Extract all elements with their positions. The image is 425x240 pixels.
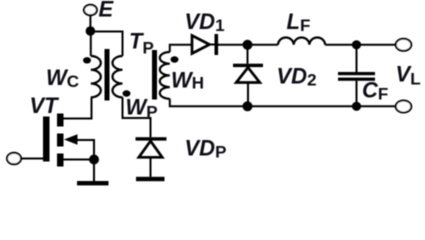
- inductor LF: [278, 37, 325, 44]
- node VD2 top junction: [243, 40, 253, 50]
- terminal output bottom: [396, 101, 412, 113]
- svg-text:VT: VT: [30, 93, 60, 118]
- transistor VT body arrow: [64, 134, 78, 144]
- winding Wc: [91, 56, 101, 97]
- wire VD1 apex: [210, 44, 215, 46]
- wire CF bottom: [356, 81, 358, 107]
- wire source to ground: [93, 160, 95, 182]
- node source junction: [89, 155, 99, 165]
- wire Wh bottom rail: [170, 99, 396, 107]
- node CF bottom junction: [352, 102, 361, 111]
- wire gate lead: [21, 158, 43, 160]
- transistor VT body stub: [57, 134, 64, 147]
- node Wp polarity dot: [123, 90, 131, 96]
- ground under VDp: [136, 177, 165, 181]
- diode VD2 triangle: [236, 68, 260, 83]
- wire CF top: [356, 45, 358, 72]
- wire VDp to ground: [150, 157, 152, 177]
- transistor VT gate bar: [43, 117, 50, 162]
- diode VD2 cathode bar: [233, 64, 263, 67]
- node Wc polarity dot: [83, 57, 91, 63]
- diode VDp triangle: [139, 141, 162, 157]
- wire Wp bottom to VDp: [123, 97, 151, 137]
- winding Wh: [160, 52, 170, 99]
- ground under VT: [77, 181, 109, 185]
- node CF top junction: [352, 40, 361, 49]
- node Wh polarity dot: [171, 56, 179, 62]
- wire Wc bottom to VT drain: [64, 97, 92, 118]
- transistor VT drain stub: [57, 114, 64, 127]
- capacitor CF top plate: [338, 72, 375, 75]
- wire VD1 to LF: [218, 44, 278, 46]
- diode VD1 cathode bar: [215, 34, 219, 55]
- wire branch to Wp top: [90, 32, 122, 57]
- core bar secondary: [152, 50, 157, 100]
- transistor VT source stub: [57, 154, 64, 167]
- wire VD2 bottom: [247, 82, 249, 106]
- terminal gate input: [7, 153, 21, 165]
- diode VD1 triangle: [192, 36, 210, 54]
- wire source lead: [64, 159, 95, 161]
- diode VDp cathode bar: [136, 137, 167, 140]
- capacitor CF bottom plate: [338, 78, 375, 81]
- winding Wp: [112, 56, 122, 97]
- wire E to Wc top: [90, 31, 92, 56]
- wire E stem: [89, 15, 91, 31]
- svg-text:E: E: [99, 0, 115, 22]
- node E junction: [86, 26, 96, 36]
- core bar transformer Tp: [105, 49, 110, 101]
- wire body lead: [76, 140, 94, 157]
- terminal output top: [396, 39, 412, 51]
- wire Wh top to VD1: [170, 45, 192, 52]
- terminal E: [84, 5, 97, 15]
- wire LF to terminal: [325, 44, 396, 46]
- wire VD2 top: [247, 45, 249, 64]
- node VD2 bottom junction: [243, 101, 253, 111]
